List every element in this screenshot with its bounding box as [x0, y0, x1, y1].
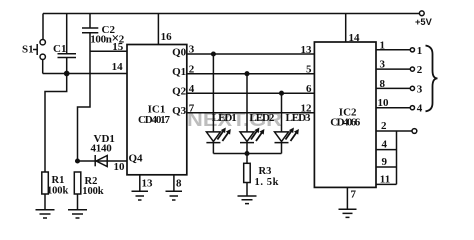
- svg-text:8: 8: [380, 78, 386, 90]
- IC U1: IC1 CD4017 box: [127, 45, 187, 175]
- svg-text:15: 15: [112, 41, 124, 53]
- svg-text:S1: S1: [22, 44, 34, 56]
- svg-text:LED2: LED2: [249, 112, 275, 124]
- svg-text:11: 11: [380, 174, 390, 186]
- ground under R2: [68, 194, 87, 218]
- svg-text:Q3: Q3: [172, 105, 187, 117]
- wire LED cathode rail: [213, 153, 281, 155]
- svg-text:13: 13: [142, 178, 154, 190]
- svg-text:4: 4: [382, 139, 388, 151]
- svg-text:Q2: Q2: [172, 86, 187, 98]
- wire IC2 pin3 to terminal 2: [376, 68, 410, 70]
- svg-text:7: 7: [351, 188, 357, 200]
- resistor R3 1.5k: [246, 154, 248, 164]
- svg-text:R1: R1: [52, 175, 65, 186]
- wire node A (S1/C1/pin14): [43, 73, 127, 75]
- svg-text:LED1: LED1: [212, 112, 237, 124]
- capacitor C2: [78, 14, 99, 162]
- wire IC2 pin14: [345, 14, 347, 43]
- wire branch to R1: [45, 74, 67, 173]
- svg-text:100k: 100k: [47, 186, 68, 197]
- wire LED1 drop from Q0: [212, 54, 214, 132]
- svg-text:LED3: LED3: [286, 112, 312, 124]
- wire Q1 pin2 to IC2 pin5: [187, 73, 315, 75]
- wire IC1 pin8 ground: [166, 175, 183, 200]
- wire IC2 pin10 to terminal 4: [376, 107, 410, 109]
- wire IC2 pin1 to terminal 1: [376, 49, 410, 51]
- svg-text:7: 7: [189, 102, 195, 114]
- node +5V terminal: [419, 11, 424, 16]
- svg-text:R3: R3: [259, 166, 272, 177]
- wire Q3 pin7 to IC2 pin12: [187, 112, 315, 114]
- brace group terminals: [426, 46, 438, 112]
- svg-text:3: 3: [189, 44, 195, 56]
- resistor R2 100k: [74, 172, 81, 194]
- svg-text:1: 1: [417, 45, 423, 57]
- svg-text:2: 2: [417, 64, 423, 76]
- svg-text:10: 10: [378, 97, 390, 109]
- svg-text:9: 9: [382, 156, 388, 168]
- wire IC2 pin2 to terminal: [376, 130, 412, 132]
- svg-text:3: 3: [417, 83, 423, 95]
- wire pin16: [157, 14, 159, 45]
- svg-text:100k: 100k: [82, 186, 103, 197]
- wire Q0 pin3 to IC2 pin13: [187, 53, 315, 55]
- svg-text:6: 6: [306, 83, 312, 95]
- ground under R1: [36, 194, 55, 218]
- svg-text:4: 4: [417, 103, 423, 115]
- svg-text:4140: 4140: [91, 143, 113, 155]
- wire LED3 drop from Q2: [281, 93, 283, 132]
- resistor R1 100k: [42, 172, 49, 194]
- wire IC2 pin8 to terminal 3: [376, 87, 410, 89]
- wire LED2 drop from Q1: [246, 74, 248, 132]
- wire Q2 pin4 to IC2 pin6: [187, 92, 315, 94]
- svg-text:14: 14: [349, 32, 361, 44]
- svg-text:CD4017: CD4017: [138, 114, 171, 126]
- svg-text:CD4066: CD4066: [330, 117, 361, 129]
- wire top +5V rail: [43, 13, 420, 15]
- wire IC2 pins 4,9,11 chain: [376, 131, 397, 184]
- svg-text:2: 2: [381, 120, 387, 132]
- wire IC2 pin7 ground: [339, 187, 357, 217]
- svg-text:Q4: Q4: [129, 153, 144, 165]
- capacitor C1: [58, 14, 77, 74]
- wire IC1 pin13 ground: [132, 175, 149, 200]
- diode VD1 4140: [78, 160, 128, 162]
- svg-text:13: 13: [301, 44, 313, 56]
- svg-text:+5V: +5V: [415, 17, 433, 27]
- svg-text:5: 5: [306, 64, 312, 76]
- svg-text:3: 3: [380, 59, 386, 71]
- svg-text:8: 8: [176, 178, 182, 190]
- svg-text:10: 10: [114, 161, 126, 173]
- svg-text:16: 16: [161, 31, 173, 43]
- switch S1: [42, 14, 44, 40]
- svg-text:C1: C1: [53, 43, 66, 55]
- svg-text:1. 5k: 1. 5k: [255, 177, 279, 188]
- svg-text:Q0: Q0: [172, 46, 187, 58]
- svg-text:1: 1: [380, 39, 386, 51]
- IC U2: IC2 CD4066 box: [314, 42, 376, 187]
- svg-text:Q1: Q1: [172, 66, 186, 78]
- svg-text:4: 4: [189, 83, 195, 95]
- svg-text:14: 14: [112, 61, 124, 73]
- wire pin15 branch: [90, 50, 127, 52]
- svg-text:2: 2: [189, 63, 195, 75]
- ground under R3: [238, 183, 257, 204]
